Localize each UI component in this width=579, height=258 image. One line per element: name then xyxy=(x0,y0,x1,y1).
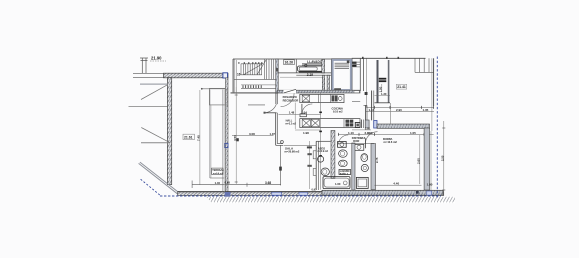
svg-text:21.90: 21.90 xyxy=(151,56,162,61)
terraza strip xyxy=(209,90,211,179)
left thin line y106 xyxy=(129,105,168,107)
long vertical wall xyxy=(226,78,229,193)
stair up diagonal xyxy=(244,64,264,75)
bottom boundary hatched band xyxy=(178,192,444,195)
svg-text:HALL: HALL xyxy=(286,120,293,123)
shower xyxy=(356,177,368,188)
duct double wall xyxy=(359,58,361,91)
svg-text:1.40: 1.40 xyxy=(215,181,221,185)
terraza vert dim xyxy=(199,90,201,185)
ensuite toilet xyxy=(361,154,368,162)
hall line xyxy=(248,104,265,106)
door rects on wall xyxy=(313,151,316,159)
window in band end xyxy=(354,91,359,93)
bath bidet xyxy=(339,160,348,167)
elevator shaft xyxy=(332,60,351,91)
tendedero walls xyxy=(377,60,379,103)
svg-text:2.60: 2.60 xyxy=(417,158,421,164)
svg-text:2.55: 2.55 xyxy=(441,155,445,161)
closet top right xyxy=(415,58,434,72)
svg-text:1.07: 1.07 xyxy=(270,132,276,136)
boundary diagonal double xyxy=(139,163,178,193)
fridge wall xyxy=(364,105,366,128)
bottom blue dashed line xyxy=(160,195,441,197)
oven unit xyxy=(355,123,360,128)
blue column at distrib corner xyxy=(374,121,377,129)
elevator cab lines xyxy=(335,63,349,68)
hob dark xyxy=(346,120,354,127)
big room vert dim xyxy=(235,87,237,184)
second window bottom sala xyxy=(299,192,308,195)
label box 21.41 xyxy=(396,84,406,89)
stair top line xyxy=(233,58,352,60)
svg-text:1.05: 1.05 xyxy=(365,127,371,131)
lower flight line xyxy=(241,84,277,86)
ensuite sink xyxy=(361,164,368,171)
svg-text:TERRAZA: TERRAZA xyxy=(212,169,224,172)
svg-text:1.98: 1.98 xyxy=(303,131,309,135)
ramp diagonal 2 xyxy=(141,128,170,143)
stair hall bottom wall lines xyxy=(231,91,278,93)
laundry wall x296 xyxy=(295,59,297,73)
svg-text:1.60: 1.60 xyxy=(335,182,341,186)
bottom right dim xyxy=(375,184,422,186)
blue column mid wall xyxy=(225,143,228,147)
right dim vertical xyxy=(443,121,445,196)
svg-text:16.26: 16.26 xyxy=(285,61,294,65)
svg-text:2.04: 2.04 xyxy=(301,111,307,115)
small rect radiator xyxy=(300,114,306,117)
aseo sink xyxy=(318,156,324,162)
svg-text:16: 16 xyxy=(237,73,241,77)
distrib door arc 1 xyxy=(339,135,349,145)
short lines right of shaft xyxy=(353,62,360,67)
svg-text:1.30: 1.30 xyxy=(381,92,387,96)
line y88.8 with dot xyxy=(202,88,226,90)
svg-text:3.08: 3.08 xyxy=(249,132,255,136)
ramp diagonal 1 xyxy=(141,85,167,100)
bedroom interior dim xyxy=(419,135,421,184)
svg-text:DOR: DOR xyxy=(353,139,359,143)
door opening in band xyxy=(284,90,297,93)
blue column top xyxy=(223,73,228,78)
dorm door arc xyxy=(365,132,377,144)
svg-text:1.16: 1.16 xyxy=(367,131,373,135)
svg-text:1.35: 1.35 xyxy=(423,108,429,112)
blue dashed diagonal xyxy=(141,179,161,195)
ground hatch below xyxy=(206,197,455,204)
wall jog xyxy=(390,103,392,124)
window bottom sala xyxy=(272,192,282,195)
stair dim line xyxy=(235,60,237,92)
svg-text:m=2.9 m2: m=2.9 m2 xyxy=(317,151,328,153)
sala left wall xyxy=(275,113,277,146)
svg-text:m=20.98 m2: m=20.98 m2 xyxy=(285,150,300,154)
sink dark xyxy=(332,95,335,101)
kitchen door arc xyxy=(302,104,312,114)
svg-text:7.45: 7.45 xyxy=(197,135,201,141)
bath toilet xyxy=(339,150,348,157)
blue dashed right xyxy=(436,57,438,198)
svg-text:m=3.2 m2: m=3.2 m2 xyxy=(285,123,296,125)
laundry beam xyxy=(302,63,323,65)
duct walls xyxy=(322,75,324,90)
svg-text:21.61: 21.61 xyxy=(184,136,193,140)
central vertical dim line xyxy=(320,93,322,190)
door mark on stair wall xyxy=(276,68,278,72)
svg-text:1.05: 1.05 xyxy=(410,131,416,135)
ensuite wall xyxy=(371,144,376,190)
top hatched wall band xyxy=(164,73,229,78)
terraza pergola rect xyxy=(209,88,225,105)
dim row right y107 xyxy=(366,106,434,108)
sala side dim annotations xyxy=(308,141,310,189)
tendedero text xyxy=(379,78,387,82)
kitchen top counter xyxy=(300,94,344,102)
svg-text:1.10: 1.10 xyxy=(348,131,354,135)
svg-text:m=10.6 m2: m=10.6 m2 xyxy=(384,140,398,144)
narrow rect at room top-left xyxy=(226,89,228,106)
stair treads right flight xyxy=(264,59,273,79)
laundry sink counter xyxy=(298,66,324,71)
stair landing line xyxy=(234,78,277,80)
banyo label box xyxy=(339,170,351,175)
svg-text:1.90: 1.90 xyxy=(427,182,433,186)
svg-text:3.68: 3.68 xyxy=(265,181,271,185)
svg-text:2.19: 2.19 xyxy=(307,73,313,77)
bathtub xyxy=(323,177,350,189)
heater box xyxy=(338,142,347,148)
corridor dim line xyxy=(280,76,322,78)
bedroom top wall band xyxy=(377,124,430,128)
line y142.7 xyxy=(141,142,170,144)
bedroom right wall band xyxy=(424,128,429,190)
svg-text:4.40: 4.40 xyxy=(393,182,399,186)
central bath hatched wall xyxy=(331,131,335,179)
corner window light blue xyxy=(427,191,432,195)
tendedero 1.30 dim xyxy=(375,95,391,97)
bottom dim line xyxy=(192,184,281,186)
wardrobe X box xyxy=(302,94,330,102)
stair left wall xyxy=(233,59,235,93)
label box 21.61 xyxy=(183,134,195,139)
level text right of elevator xyxy=(352,62,356,67)
window ticks on top line xyxy=(362,57,364,59)
stair number blobs xyxy=(238,62,262,64)
dorm1 right wall xyxy=(433,58,435,106)
gray band y84 xyxy=(140,83,167,85)
svg-text:m=9.6 m2: m=9.6 m2 xyxy=(213,173,224,175)
kitchen peninsula xyxy=(300,119,360,128)
svg-text:9.10 m2: 9.10 m2 xyxy=(333,110,343,114)
svg-text:4.50: 4.50 xyxy=(233,135,237,141)
aseo left wall xyxy=(315,141,317,190)
svg-text:RECIBIDOR: RECIBIDOR xyxy=(283,98,299,102)
thin boundary lines left xyxy=(133,72,164,74)
stair treads upper xyxy=(241,64,262,75)
ensuite vanity xyxy=(354,144,364,150)
sala door arc xyxy=(265,104,277,113)
corridor bottom wall band xyxy=(278,90,361,93)
svg-text:1.48: 1.48 xyxy=(289,111,295,115)
svg-text:BAÑO 2: BAÑO 2 xyxy=(340,172,349,175)
wall corner block xyxy=(365,120,369,128)
kitchen bottom dim row xyxy=(295,129,320,131)
svg-text:2.90: 2.90 xyxy=(396,108,402,112)
aseo toilet xyxy=(321,168,329,176)
room dim line y135.5 xyxy=(232,135,274,137)
bottom wall band right rooms xyxy=(322,190,443,195)
svg-text:0.95: 0.95 xyxy=(225,180,231,184)
label box 16.26 xyxy=(284,60,295,65)
wall between kitchen and tendedero xyxy=(371,91,373,121)
svg-text:2.75: 2.75 xyxy=(375,157,379,163)
corridor top wall lines xyxy=(278,72,332,74)
terraza text box xyxy=(212,168,223,174)
svg-text:21.41: 21.41 xyxy=(397,85,406,89)
lower flight ticks xyxy=(243,85,261,88)
left hatched wall xyxy=(167,78,171,185)
bottom wall line sala xyxy=(178,190,323,192)
distrib dim row xyxy=(338,133,434,135)
window tick on band xyxy=(416,191,419,194)
counter front xyxy=(299,71,324,73)
blue block bottom junction xyxy=(225,192,231,197)
terraza dims xyxy=(210,184,223,186)
level marker top-left xyxy=(140,58,148,73)
tendedero dim xyxy=(381,84,383,92)
laundry right hatched wall xyxy=(322,59,325,73)
svg-text:ASEO: ASEO xyxy=(318,146,325,150)
top line right part xyxy=(352,57,426,59)
stair right wall xyxy=(276,59,279,93)
bath right wall band xyxy=(352,143,355,190)
patinejo dim line xyxy=(365,59,367,108)
hall wall stub xyxy=(275,93,277,104)
dim y129.9 xyxy=(352,129,371,131)
